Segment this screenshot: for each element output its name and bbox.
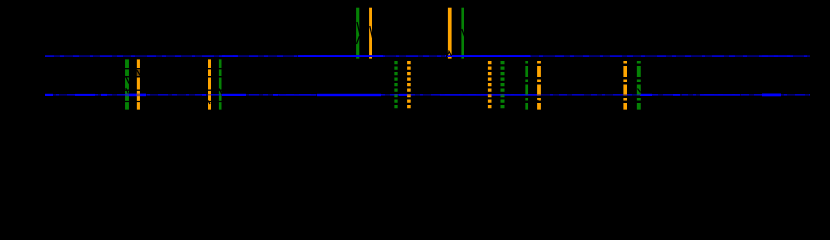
waveform 2 blob c — [101, 94, 107, 96]
waveform 2 crossing over mid C green — [394, 94, 397, 95]
waveform 1 baseline — [45, 56, 810, 57]
alignment cut across top-left green — [357, 22, 361, 37]
waveform 2 medium segment pre — [279, 94, 316, 96]
alignment cut across mid B orange — [208, 101, 210, 105]
waveform 2 texture bright dashes — [45, 94, 810, 96]
alignment cut across mid A orange — [137, 70, 141, 77]
marker orange dashed mid A — [137, 59, 140, 109]
waveform 2 blob a — [45, 94, 53, 96]
waveform 2 crossing over mid A green — [125, 94, 129, 97]
waveform 2 baseline — [45, 94, 810, 95]
waveform 2 blob b — [75, 94, 95, 96]
alignment cut across top-left green lower — [357, 36, 360, 44]
waveform 1 thick segment d — [762, 55, 790, 57]
marker orange dashdot mid H — [623, 61, 627, 110]
waveform 2 segment j — [440, 94, 540, 96]
alignment cut across mid G orange — [538, 100, 540, 103]
alignment cut across top-right orange — [446, 52, 450, 58]
waveform 2 crossing over mid E green — [501, 94, 505, 95]
alignment cut across mid A green lower — [126, 88, 129, 94]
waveform 2 crossing over mid G green — [525, 94, 528, 95]
waveform 2 blob i — [399, 94, 408, 96]
waveform 2 crossing over mid C orange — [407, 94, 411, 95]
marker orange dashdot mid G — [537, 61, 541, 110]
alignment cut across top-left orange — [370, 26, 373, 40]
marker green solid top-right — [461, 8, 464, 59]
marker green dashed mid A — [125, 59, 129, 109]
marker orange dotted mid E — [488, 61, 492, 110]
waveform 1 thick segment a — [298, 55, 383, 57]
waveform 2 crossing over mid B green — [219, 94, 222, 95]
waveform 2 crossing over mid B orange — [208, 94, 211, 95]
marker green dashdot mid G — [525, 61, 528, 110]
waveform 2 crossing over mid A orange — [137, 94, 140, 97]
waveform 2 crossing over mid G orange — [537, 94, 541, 95]
marker green dotted mid E — [501, 61, 505, 110]
waveform 2 blob e — [202, 94, 206, 96]
marker orange solid top-left — [369, 8, 372, 59]
waveform 2 blob k — [640, 94, 652, 96]
waveform 2 blob d — [128, 94, 146, 97]
waveform 2 blob n — [762, 94, 781, 97]
marker green dotted mid C — [394, 61, 397, 110]
marker green solid top-left — [356, 8, 359, 59]
marker orange dotted mid C — [407, 61, 411, 110]
waveform 2 crossing over mid E orange — [488, 94, 492, 95]
waveform 2 blob g — [273, 94, 278, 96]
alignment cut across top-right green — [462, 29, 465, 37]
alignment cut across top-right orange second — [449, 51, 452, 57]
waveform 2 crossing over mid H green — [637, 94, 641, 95]
alignment cut across mid A green — [126, 76, 130, 84]
waveform 1 thick segment c — [222, 55, 238, 57]
marker orange dashed mid B — [208, 59, 211, 109]
waveform 2 blob h — [317, 94, 381, 96]
waveform 2 blob f — [222, 94, 246, 96]
alignment cut across mid B green — [219, 89, 222, 95]
marker green dashdot mid H — [637, 61, 641, 110]
waveform 1 texture bright dashes — [45, 55, 810, 57]
waveform 2 crossing over mid H orange — [623, 94, 627, 95]
waveform 2 segment m — [700, 94, 740, 96]
marker orange solid top-right — [448, 8, 452, 59]
marker green dashed mid B — [219, 59, 222, 109]
waveform 2 blob l — [673, 94, 680, 96]
alignment cut across mid H green — [638, 89, 641, 93]
waveform 1 thick segment b — [445, 55, 530, 57]
